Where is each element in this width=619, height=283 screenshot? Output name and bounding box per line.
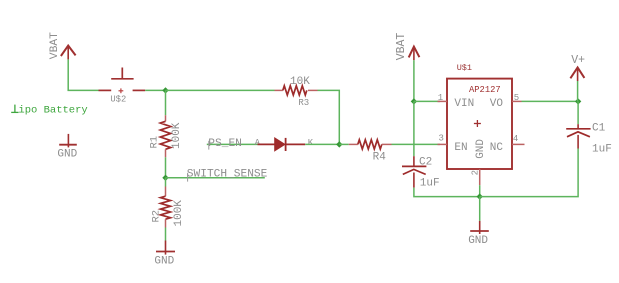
wire battery to node A xyxy=(145,89,165,91)
wire node D to VIN pin 1 xyxy=(414,100,440,102)
net label PS_EN xyxy=(208,138,242,150)
svg-text:A: A xyxy=(255,138,261,148)
svg-text:10K: 10K xyxy=(290,76,310,88)
wire C2 to ground rail xyxy=(414,188,480,197)
wire V+ to node F xyxy=(577,81,579,101)
diode D1 xyxy=(258,138,306,151)
svg-text:K: K xyxy=(308,138,314,148)
svg-text:GND: GND xyxy=(475,139,487,159)
svg-text:R1: R1 xyxy=(149,136,161,149)
svg-text:GND: GND xyxy=(468,235,488,247)
node E junction on ground rail xyxy=(477,193,483,199)
svg-text:4: 4 xyxy=(513,134,518,144)
node D junction xyxy=(411,98,417,104)
svg-text:PS_EN: PS_EN xyxy=(208,138,242,150)
IC U$1 AP2127 body xyxy=(447,63,512,169)
svg-text:100K: 100K xyxy=(173,200,185,227)
wire R2 to ground xyxy=(165,228,167,241)
node F junction xyxy=(575,98,581,104)
svg-text:U$2: U$2 xyxy=(110,94,126,104)
IC pin 5 VO xyxy=(512,93,522,103)
svg-text:NC: NC xyxy=(490,142,504,154)
IC pin 3 EN xyxy=(438,134,448,145)
svg-text:VBAT: VBAT xyxy=(49,32,61,59)
svg-text:GND: GND xyxy=(154,256,174,268)
svg-text:3: 3 xyxy=(439,134,444,144)
node B junction xyxy=(336,141,342,147)
svg-text:R3: R3 xyxy=(298,98,309,108)
resistor R1 xyxy=(149,115,184,157)
svg-text:5: 5 xyxy=(514,93,519,103)
svg-text:100K: 100K xyxy=(171,122,183,149)
svg-text:V+: V+ xyxy=(571,54,585,67)
svg-text:2: 2 xyxy=(471,170,481,175)
wire node D down to C2 xyxy=(413,101,415,156)
wire pin 5 VO to node F xyxy=(522,100,579,102)
resistor R2 xyxy=(151,187,185,228)
resistor R3 xyxy=(275,76,318,108)
svg-text:U$1: U$1 xyxy=(457,63,472,73)
capacitor C2 xyxy=(402,156,440,189)
ground GND (R2) xyxy=(154,241,175,268)
wire R3 down to node B xyxy=(318,90,340,144)
ground GND (rail) xyxy=(468,197,489,248)
svg-text:SWITCH_SENSE: SWITCH_SENSE xyxy=(187,169,268,181)
node C junction xyxy=(162,175,168,181)
svg-text:VIN: VIN xyxy=(454,98,474,110)
svg-text:GND: GND xyxy=(57,148,77,160)
svg-text:C2: C2 xyxy=(419,156,432,168)
svg-text:1uF: 1uF xyxy=(592,143,612,155)
diode D1 anode label A xyxy=(255,138,261,148)
svg-text:C1: C1 xyxy=(592,123,606,135)
svg-text:1: 1 xyxy=(438,93,443,103)
wire node B to R4 xyxy=(339,143,349,145)
svg-text:1uF: 1uF xyxy=(420,177,440,189)
wire node A to R3 xyxy=(166,89,275,91)
svg-text:R2: R2 xyxy=(151,210,163,223)
wire VBAT flag to battery xyxy=(68,59,98,90)
net label SWITCH_SENSE wire stub xyxy=(166,177,265,179)
svg-text:EN: EN xyxy=(454,142,467,154)
node A junction xyxy=(162,87,168,93)
label lipo Battery xyxy=(11,105,88,117)
wire VBAT right down to node D xyxy=(413,60,415,101)
net label PS_EN wire stub xyxy=(207,143,258,145)
IC pin 4 NC xyxy=(512,134,525,145)
diode D1 cathode label K xyxy=(308,138,314,148)
wire R1 to node C xyxy=(165,157,167,178)
IC pin 1 VIN xyxy=(438,93,448,103)
ground GND (battery) xyxy=(57,134,77,160)
wire node A down to R1 xyxy=(165,90,167,115)
capacitor C1 xyxy=(566,123,612,156)
wire diode to node B xyxy=(305,143,339,145)
svg-text:ipo Battery: ipo Battery xyxy=(18,105,87,117)
power flag VBAT (right) xyxy=(395,33,420,61)
wire R4 to EN pin 3 xyxy=(392,143,441,145)
svg-text:AP2127: AP2127 xyxy=(469,85,501,95)
battery U$2 xyxy=(99,68,146,105)
wire node C down to R2 xyxy=(165,178,167,187)
resistor R4 xyxy=(349,140,392,164)
svg-text:VO: VO xyxy=(490,98,504,110)
svg-text:VBAT: VBAT xyxy=(395,33,408,61)
wire pin 2 to ground rail xyxy=(479,185,481,196)
power flag VBAT (left) xyxy=(49,32,76,60)
wire node F down to C1 xyxy=(577,101,579,124)
power flag V+ xyxy=(570,54,585,81)
svg-text:R4: R4 xyxy=(373,152,387,164)
IC pin 2 GND xyxy=(471,169,481,185)
net label SWITCH_SENSE xyxy=(187,169,268,182)
wire ground rail to C1 xyxy=(480,149,578,197)
